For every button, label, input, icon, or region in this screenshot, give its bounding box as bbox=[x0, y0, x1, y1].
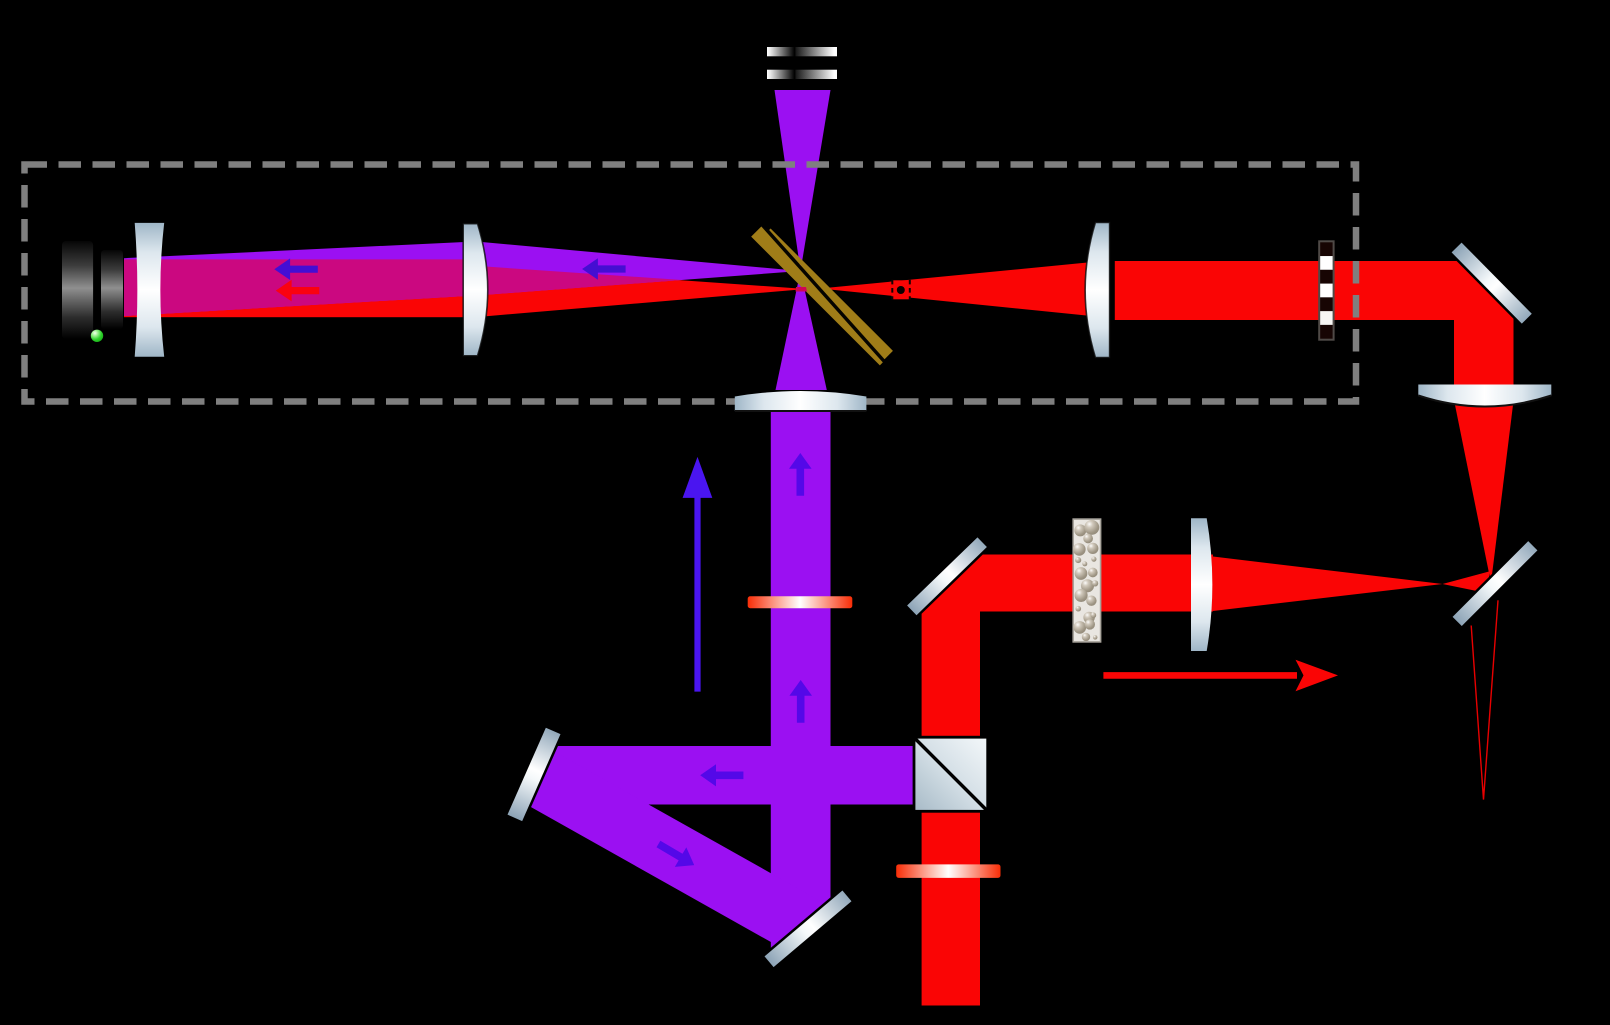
mirror M1R (top right) bbox=[1450, 243, 1532, 326]
purple beam: wedge from L2 converging to focus bbox=[475, 241, 801, 295]
arrow: down-right arrow in diagonal beam bbox=[653, 834, 700, 875]
lens L6 (tube lens, horizontal) bbox=[735, 391, 867, 411]
red beam: wedge from focus to lens L3 bbox=[820, 262, 1095, 317]
purple beam: cone from focus down to tube lens L6 bbox=[776, 271, 827, 390]
lens L4 (horizontal, right side) bbox=[1418, 385, 1551, 407]
purple beam: horizontal beam from cube to mirror M3 bbox=[531, 746, 914, 805]
arrow: left arrow in horizontal purple beam bbox=[700, 764, 743, 786]
red beam: collimated from L3, fold at mirror M1R, down to lens L4 bbox=[1115, 261, 1514, 390]
lens L2 (plano-convex) bbox=[463, 224, 488, 356]
arrow: red left in magenta band bbox=[276, 280, 320, 302]
diffuser plate with bubbles bbox=[1073, 519, 1101, 642]
purple beam: cone from top mirror down to focus bbox=[775, 90, 831, 271]
detector nose (small cylinder) bbox=[101, 250, 123, 329]
dashed enclosure box bbox=[25, 165, 1357, 402]
mirror M2B (bottom purple fold) bbox=[763, 889, 852, 967]
arrow: purple left in magenta band bbox=[274, 258, 318, 280]
arrow: up arrow in vertical beam (upper) bbox=[789, 453, 812, 496]
arrow: up arrow in vertical beam (lower) bbox=[789, 680, 812, 723]
gold dichroic slab at focus (two sheets with black gap) bbox=[751, 223, 893, 365]
purple beam: tilted collimated band in cavity bbox=[124, 242, 475, 317]
arrow: purple left in wedge bbox=[582, 258, 626, 280]
waveplate 2 (in red beam) bbox=[896, 864, 1000, 878]
purple beam: diagonal beam from M3 down to M2B bbox=[519, 748, 824, 944]
mirror M3 (left purple fold) bbox=[508, 728, 563, 822]
red beam: small wedge from focus onto mirror M2R bbox=[1443, 572, 1490, 594]
mirror M1B (bottom path fold) bbox=[907, 537, 989, 617]
red beam: wedge converging from L2 to focus bbox=[475, 266, 806, 317]
mirror M2R (right, lower) bbox=[1451, 539, 1538, 626]
green LED indicator bbox=[91, 330, 103, 342]
pinhole / sample cell bbox=[892, 280, 911, 300]
red beam: from laser up through cube, fold at mirror M1B, to lens L5 bbox=[922, 555, 1213, 1006]
arrow: long red right arrow bbox=[1103, 660, 1338, 692]
arrow: long standalone blue up arrow bbox=[683, 457, 713, 692]
magenta overlap: wedge bbox=[475, 266, 682, 296]
waveplate 1 (in purple beam) bbox=[748, 596, 853, 608]
red ghost beam outline below mirror M2R bbox=[1471, 600, 1498, 799]
top mirror bar 2 bbox=[767, 70, 837, 79]
lens L1 (concave) bbox=[135, 223, 165, 357]
top mirror bar 1 bbox=[767, 47, 837, 56]
lens L3 (plano-convex) bbox=[1085, 223, 1109, 358]
lens L5 (plano-convex, lower path) bbox=[1191, 518, 1212, 651]
crimson overlap at focus (over gold) bbox=[796, 287, 808, 292]
red beam: wedge from L5 to focus before M2R bbox=[1213, 557, 1443, 612]
red beam: collimated band in cavity (detector to lens L2) bbox=[124, 259, 475, 317]
magenta overlap: collimated band bbox=[124, 259, 475, 316]
detector body (large cylinder) bbox=[62, 241, 93, 339]
checkered ND filter bbox=[1318, 240, 1334, 340]
purple beam: vertical beam from L6 down to mirror M2B bbox=[771, 411, 831, 948]
red beam: cone from lens L4 converging onto mirror M2R bbox=[1455, 405, 1513, 583]
beamsplitter cube bbox=[914, 737, 988, 811]
